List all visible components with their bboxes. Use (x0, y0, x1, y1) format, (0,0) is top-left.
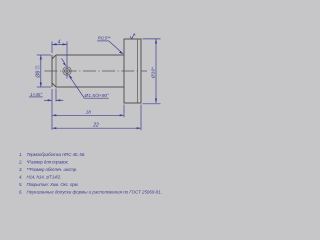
svg-text:18: 18 (86, 110, 92, 116)
svg-text:Покрытие: Хим. Окс. прм.: Покрытие: Хим. Окс. прм. (27, 182, 79, 187)
svg-text:Ø16*: Ø16* (151, 66, 157, 79)
svg-text:R0,5**: R0,5** (98, 36, 111, 41)
dim 22: extension line at flange right (140, 105, 142, 131)
R0,5** underline (97, 40, 108, 42)
hole vertical centerline / extension of dim 4 (66, 42, 68, 79)
hole note lower arrow (69, 75, 73, 79)
part outline: flange (124, 39, 141, 103)
svg-text:**Размер обеспеч. инстр.: **Размер обеспеч. инстр. (27, 167, 78, 172)
svg-text:1×45°: 1×45° (30, 92, 42, 97)
surface finish checkmark (130, 33, 135, 39)
hole note underline (84, 97, 109, 99)
dim 18: arrows (52, 114, 56, 116)
hole note upper arrow (63, 62, 67, 66)
part outline: cylinder body (52, 55, 124, 87)
centerline main (45, 70, 148, 72)
dim 4: dimension line (52, 43, 67, 45)
svg-text:1.: 1. (19, 152, 22, 157)
dim 18: dimension line (52, 114, 124, 116)
left dim Ø8: dimension line (40, 55, 42, 87)
svg-text:*Размер для справок.: *Размер для справок. (27, 160, 69, 165)
dim 4: left arrow (52, 43, 57, 45)
R0,5** leader (109, 41, 123, 54)
hole note leader upper segment (62, 59, 65, 63)
svg-text:4.: 4. (19, 175, 22, 180)
right dim Ø16*: dimension line (155, 39, 157, 103)
left dim Ø8: arrows (40, 55, 42, 60)
left dim Ø8: extension lines (37, 54, 51, 56)
hole inner circle (65, 69, 70, 74)
flange chamfer line (137, 39, 139, 103)
R0,5** leader arrow (119, 51, 123, 54)
svg-text:Термообработка HRC 40..56.: Термообработка HRC 40..56. (27, 152, 86, 157)
svg-text:4: 4 (58, 40, 61, 46)
chamfer dim 1×45°: extension lines (51, 89, 53, 130)
svg-text:6.: 6. (19, 190, 22, 195)
right dim Ø16*: arrows (155, 39, 157, 44)
svg-text:Ø8: Ø8 (35, 71, 41, 79)
hole outer circle (63, 67, 71, 75)
dim 4: right arrow (63, 43, 68, 45)
svg-text:H14, h14, ±IT14/2.: H14, h14, ±IT14/2. (27, 175, 62, 180)
dim 22: arrows (52, 127, 56, 129)
dim 22: dimension line (52, 127, 141, 129)
hole note leader lower segment (70, 76, 85, 98)
dim 4: extension line left (51, 42, 53, 54)
notes list (18, 152, 162, 195)
right dim Ø16*: extension lines (143, 38, 161, 40)
svg-text:22: 22 (92, 123, 99, 129)
svg-text:3.: 3. (19, 167, 22, 172)
svg-text:5.: 5. (19, 182, 22, 187)
chamfer dim: dimension line + arrows outside (44, 99, 52, 101)
dim 18: extension line at flange left (123, 105, 125, 118)
svg-text:2.: 2. (18, 160, 22, 165)
svg-text:Неуказанные допуски формы и ра: Неуказанные допуски формы и расположения… (27, 190, 162, 195)
